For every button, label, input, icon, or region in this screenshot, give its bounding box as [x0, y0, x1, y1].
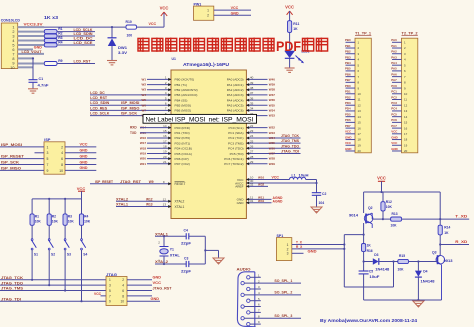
wire L1 to C2 [306, 179, 317, 181]
ground [285, 67, 295, 69]
svg-text:4: 4 [61, 151, 63, 155]
svg-text:W16: W16 [140, 136, 147, 140]
svg-text:10uF: 10uF [369, 275, 379, 279]
svg-text:VCC: VCC [160, 6, 169, 11]
pin 5 T1 [346, 64, 356, 66]
svg-text:R3: R3 [68, 215, 72, 219]
resistor R3 10K [64, 199, 66, 214]
svg-text:JTAG_RST: JTAG_RST [153, 286, 173, 290]
svg-text:W25: W25 [269, 141, 276, 145]
pin 40 PA0 [246, 78, 267, 80]
svg-text:T2_TP_2: T2_TP_2 [402, 31, 418, 35]
svg-text:9: 9 [12, 61, 14, 65]
wire LCD_SCE [57, 44, 95, 46]
svg-text:JTAG_TCK: JTAG_TCK [1, 276, 24, 280]
wire LCD pin4 [18, 40, 45, 42]
svg-text:14: 14 [163, 124, 167, 128]
pin 17 T2 [392, 133, 402, 135]
wire RXD [140, 127, 147, 129]
svg-text:W31: W31 [258, 199, 265, 203]
svg-text:DW1: DW1 [118, 46, 127, 50]
svg-text:10: 10 [404, 92, 408, 96]
svg-text:13: 13 [404, 109, 408, 113]
wire D3 to R15 [379, 261, 398, 263]
svg-text:T1_TP_1: T1_TP_1 [355, 31, 371, 35]
wire LCD pin5 [18, 44, 45, 46]
svg-text:5: 5 [12, 44, 14, 48]
pin 17 PD3 [147, 142, 171, 144]
svg-text:PD6 (ICP): PD6 (ICP) [175, 157, 189, 161]
svg-text:R1: R1 [35, 215, 39, 219]
svg-text:1: 1 [12, 26, 14, 30]
svg-text:Net Label ISP_MOSI: Net Label ISP_MOSI [146, 116, 206, 123]
svg-text:PA4 (ADC4): PA4 (ADC4) [227, 98, 244, 102]
wire LCD_RES [90, 109, 147, 111]
svg-text:LCD_RST: LCD_RST [74, 60, 92, 64]
svg-text:PC4 (TDO): PC4 (TDO) [228, 147, 243, 151]
svg-text:Y1: Y1 [170, 248, 174, 252]
svg-text:VCC: VCC [285, 5, 294, 10]
svg-text:PD5: PD5 [345, 112, 351, 116]
resistor R13 10K [391, 217, 402, 221]
pin 8 PB7 [147, 115, 171, 117]
svg-text:16: 16 [404, 126, 408, 130]
svg-text:14: 14 [358, 115, 362, 119]
wire R10 to VCC [137, 26, 165, 28]
resistor R10 [126, 25, 137, 29]
ground [413, 301, 424, 307]
svg-text:C3: C3 [184, 256, 188, 260]
svg-text:GND: GND [391, 147, 397, 151]
wire ISP_RESET [0, 158, 44, 160]
junction [163, 263, 165, 265]
junction [31, 279, 33, 281]
svg-text:9013: 9013 [444, 259, 453, 263]
wire VCC to R11 [289, 11, 291, 21]
pin 9 RESET [90, 183, 171, 185]
pin 15 PD1 [147, 132, 171, 134]
resistor R4 10K [81, 199, 83, 214]
svg-text:PC7: PC7 [391, 124, 397, 128]
svg-text:LCD_SCE: LCD_SCE [74, 41, 94, 45]
junction [64, 198, 66, 200]
zener diode DW1 3.3V [111, 27, 113, 37]
pin 32 AREF [246, 185, 268, 187]
pin 4 AUDIO [241, 293, 244, 296]
svg-text:D4: D4 [423, 270, 427, 274]
svg-text:PA0: PA0 [391, 38, 397, 42]
svg-text:R12: R12 [386, 200, 392, 204]
svg-text:PD3 (INT1): PD3 (INT1) [175, 141, 191, 145]
svg-text:PA1 (ADC1): PA1 (ADC1) [227, 83, 244, 87]
svg-text:T_X: T_X [296, 241, 303, 245]
pin 7 T1 [346, 76, 356, 78]
svg-text:W36: W36 [269, 98, 276, 102]
wire bottom link [344, 286, 393, 288]
svg-text:S1: S1 [34, 253, 38, 257]
wire R11 to LED1 [289, 33, 291, 51]
svg-text:LCD_VOUT: LCD_VOUT [22, 50, 43, 54]
svg-text:5: 5 [109, 289, 111, 293]
svg-text:W19: W19 [140, 151, 147, 155]
svg-text:Q2: Q2 [368, 206, 373, 210]
svg-text:12: 12 [163, 198, 167, 202]
pin 1 PB0 [147, 78, 171, 80]
wire XTAL1 top [155, 235, 186, 237]
svg-text:10: 10 [59, 169, 63, 173]
wire LCD_SDIN [57, 35, 95, 37]
svg-text:W20: W20 [140, 157, 147, 161]
svg-text:ATmega16(L)-16PU: ATmega16(L)-16PU [183, 62, 229, 67]
wire ISP_MISO [0, 169, 44, 171]
svg-text:S2: S2 [51, 253, 55, 257]
svg-text:PB6 (MISO): PB6 (MISO) [175, 109, 192, 113]
svg-text:R10: R10 [126, 20, 132, 24]
wire crystal right [204, 236, 206, 264]
svg-text:PD1: PD1 [345, 90, 351, 94]
svg-text:31: 31 [250, 199, 254, 203]
capacitor C3 22pF [185, 261, 187, 267]
pin 34 PA6 [246, 109, 267, 111]
pin 19 T2 [392, 144, 402, 146]
pin 9 AUDIO [247, 322, 250, 325]
resistor R12 10K [382, 192, 384, 202]
resistor R1 10K [31, 199, 33, 214]
pin 27 PC5 [246, 152, 300, 154]
svg-text:W4: W4 [142, 93, 147, 97]
svg-text:17: 17 [404, 132, 408, 136]
resistor R16 1K [363, 235, 365, 244]
svg-text:10K: 10K [68, 220, 75, 224]
wire LCD pin10 down to C1 [18, 66, 33, 68]
junction [48, 284, 50, 286]
resistor R4 [44, 43, 57, 47]
pin 8 T2 [392, 81, 402, 83]
pin 28 PC6 [246, 158, 267, 160]
switch S1 [31, 239, 33, 241]
svg-text:VCC: VCC [149, 22, 157, 26]
junction [163, 235, 165, 237]
svg-text:ISP_MOSI: ISP_MOSI [121, 101, 139, 105]
svg-text:1K: 1K [293, 27, 298, 31]
svg-text:PB4: PB4 [345, 61, 351, 65]
svg-text:PD4: PD4 [345, 107, 351, 111]
svg-text:XTAL2: XTAL2 [116, 198, 128, 202]
wire JTAG_TCK [0, 279, 106, 281]
svg-text:W10: W10 [258, 176, 265, 180]
pin 12 T2 [392, 104, 402, 106]
pin 38 PA2 [246, 89, 267, 91]
svg-text:6: 6 [12, 48, 14, 52]
capacitor C4 22pF [185, 233, 187, 239]
svg-text:2: 2 [12, 30, 14, 34]
svg-text:11: 11 [358, 98, 361, 102]
svg-text:3: 3 [12, 35, 14, 39]
svg-text:LCD_SCLK: LCD_SCLK [74, 28, 93, 32]
resistor R11 1K [288, 21, 292, 33]
svg-text:XTAL1: XTAL1 [155, 232, 168, 236]
wire LCD pin8 [18, 57, 33, 59]
svg-text:S4: S4 [83, 253, 87, 257]
wire to D3 [364, 261, 373, 263]
svg-text:35: 35 [250, 101, 254, 105]
svg-text:VCC: VCC [94, 292, 102, 296]
wire R_XD [440, 244, 469, 246]
wire right rail [439, 192, 441, 225]
wire bottom rail [364, 299, 442, 301]
svg-text:14: 14 [404, 115, 408, 119]
svg-text:PC3: PC3 [391, 101, 397, 105]
pin 22 PC0 [246, 127, 267, 129]
svg-text:37: 37 [250, 91, 254, 95]
svg-text:28: 28 [250, 155, 254, 159]
svg-text:W2: W2 [142, 83, 147, 87]
pin 15 T1 [346, 121, 356, 123]
svg-text:10K: 10K [391, 223, 398, 227]
svg-text:PB2: PB2 [345, 50, 351, 54]
wire top rail [364, 191, 441, 193]
svg-text:L1: L1 [292, 173, 296, 177]
wire JTAG pin2 [127, 279, 152, 281]
svg-text:36: 36 [250, 96, 254, 100]
svg-text:U1: U1 [172, 57, 176, 61]
svg-text:PB2 (AIN0/INT2): PB2 (AIN0/INT2) [175, 88, 198, 92]
svg-text:PB0 (XCK/T0): PB0 (XCK/T0) [175, 78, 195, 82]
wire Q2 to SP1 rail [344, 234, 363, 236]
svg-text:R1: R1 [58, 27, 62, 31]
svg-text:10: 10 [120, 300, 124, 304]
junction [382, 218, 384, 220]
pin 2 T2 [392, 47, 402, 49]
svg-text:TXD: TXD [130, 131, 137, 135]
svg-text:4: 4 [122, 284, 124, 288]
svg-text:20: 20 [404, 149, 408, 153]
pin 6 T1 [346, 70, 356, 72]
svg-text:R14: R14 [444, 226, 450, 230]
svg-text:9: 9 [109, 300, 111, 304]
svg-text:ISP_MISO: ISP_MISO [1, 166, 21, 170]
wire C5 down [363, 274, 365, 300]
svg-text:PC1: PC1 [391, 90, 397, 94]
svg-text:LCD_RST: LCD_RST [90, 96, 108, 100]
svg-text:LCD_SDIN: LCD_SDIN [90, 101, 109, 105]
junction [439, 218, 441, 220]
svg-text:17: 17 [163, 139, 167, 143]
svg-text:GND: GND [80, 149, 88, 153]
wire ISP pin6 [65, 158, 96, 160]
wire SP1 pin2 [292, 248, 345, 250]
svg-text:22pF: 22pF [181, 269, 191, 273]
svg-text:T_XD: T_XD [455, 215, 468, 219]
junction [343, 243, 345, 245]
svg-text:W5: W5 [142, 98, 147, 102]
svg-text:VCC: VCC [153, 281, 162, 285]
svg-text:AREF: AREF [235, 185, 243, 189]
resistor R1 [44, 30, 57, 34]
svg-text:LCD_SCLK: LCD_SCLK [90, 112, 109, 116]
wire JTAG_TDO [0, 284, 106, 286]
junction [315, 182, 317, 184]
pin 8 AUDIO [241, 317, 244, 320]
pin 16 T1 [346, 127, 356, 129]
svg-text:GND: GND [151, 297, 160, 301]
svg-text:W33: W33 [269, 114, 276, 118]
svg-text:VCC: VCC [77, 186, 86, 191]
svg-text:PC2: PC2 [391, 95, 397, 99]
svg-text:19: 19 [163, 150, 167, 154]
svg-text:PC2 (TCK): PC2 (TCK) [228, 136, 243, 140]
wire ISP pin3 [35, 152, 45, 154]
svg-text:W13: W13 [146, 203, 153, 207]
svg-text:R_XD: R_XD [455, 240, 468, 244]
svg-text:1: 1 [207, 9, 209, 13]
junction [204, 249, 206, 251]
svg-text:PC3 (TMS): PC3 (TMS) [228, 141, 243, 145]
pin 4 T2 [392, 58, 402, 60]
ground [311, 207, 322, 213]
svg-text:PB6: PB6 [345, 72, 351, 76]
svg-text:W23: W23 [269, 131, 276, 135]
svg-text:R_X: R_X [296, 245, 303, 249]
svg-text:15: 15 [404, 121, 408, 125]
svg-text:R9: R9 [58, 59, 62, 63]
svg-text:XTAL1: XTAL1 [175, 205, 185, 209]
svg-text:15: 15 [358, 121, 362, 125]
svg-text:26: 26 [250, 144, 254, 148]
wire TXD [140, 132, 147, 134]
svg-text:PC1 (SDA): PC1 (SDA) [228, 131, 243, 135]
wire JTAG pin4 [127, 284, 152, 286]
svg-text:100: 100 [127, 34, 133, 38]
svg-text:JTAG_TDO: JTAG_TDO [281, 144, 299, 148]
svg-text:VCC: VCC [272, 176, 280, 180]
svg-text:W18: W18 [140, 146, 147, 150]
junction [392, 260, 394, 262]
svg-text:VCC: VCC [377, 175, 386, 180]
svg-text:104: 104 [319, 201, 325, 205]
svg-text:RESET: RESET [175, 182, 186, 186]
svg-text:W28: W28 [269, 157, 276, 161]
wire to R13 [383, 218, 391, 220]
pin 31 GND [246, 202, 271, 204]
wire VCC down [381, 181, 383, 192]
svg-text:W38: W38 [269, 88, 276, 92]
junction [80, 300, 82, 302]
svg-text:19: 19 [358, 143, 362, 147]
svg-text:38: 38 [250, 86, 254, 90]
wire to ground [205, 249, 218, 251]
svg-text:3: 3 [287, 252, 289, 256]
ground [28, 88, 38, 90]
pin 2 T1 [346, 47, 356, 49]
svg-text:W1: W1 [142, 77, 147, 81]
wire JTAG pin8 [127, 295, 152, 297]
svg-text:GND: GND [391, 135, 397, 139]
svg-text:ISP_SCK: ISP_SCK [1, 161, 20, 165]
svg-text:ISP_MISO: ISP_MISO [121, 106, 140, 110]
wire T_XD [402, 218, 470, 220]
svg-text:2: 2 [207, 14, 209, 18]
pin 2 PB1 [147, 84, 171, 86]
svg-text:2: 2 [122, 278, 124, 282]
svg-text:8: 8 [12, 57, 14, 61]
svg-text:ISP_RESET: ISP_RESET [1, 155, 25, 159]
wire ISP pin8 [65, 164, 96, 166]
pin 35 PA5 [246, 104, 267, 106]
svg-text:1N4148: 1N4148 [421, 280, 435, 284]
svg-text:PB5: PB5 [345, 67, 351, 71]
pin 12 T1 [346, 104, 356, 106]
svg-text:Q3: Q3 [432, 251, 437, 255]
svg-text:18: 18 [163, 144, 167, 148]
svg-text:PD7 (OC2): PD7 (OC2) [175, 162, 190, 166]
svg-text:34: 34 [250, 107, 254, 111]
junction [380, 191, 382, 193]
pin 1 AUDIO [247, 276, 250, 279]
svg-text:XTAL: XTAL [170, 254, 180, 258]
wire R12 to junction [382, 211, 384, 219]
pin 4 T1 [346, 58, 356, 60]
svg-text:16: 16 [163, 134, 167, 138]
wire LCD_RST [57, 63, 95, 65]
svg-text:JTAG_TDI: JTAG_TDI [1, 297, 21, 301]
svg-text:16: 16 [358, 126, 362, 130]
svg-text:net: ISP_MOSI: net: ISP_MOSI [209, 116, 254, 123]
svg-text:1: 1 [47, 145, 49, 149]
wire SP1 pin1 [292, 244, 345, 246]
pin 8 T1 [346, 81, 356, 83]
pin 12 XTAL2 [116, 200, 171, 202]
svg-text:6: 6 [61, 157, 63, 161]
svg-text:R16: R16 [367, 249, 373, 253]
junction [363, 234, 365, 236]
wire ISP_MOSI [0, 146, 44, 148]
wire left rail [363, 192, 365, 213]
svg-text:5: 5 [47, 157, 49, 161]
svg-text:PB4 (SS): PB4 (SS) [175, 98, 188, 102]
svg-text:W37: W37 [269, 93, 276, 97]
svg-text:10: 10 [10, 66, 14, 70]
resistor R14 1K [438, 225, 442, 235]
svg-text:C1: C1 [39, 77, 44, 81]
pin 17 T1 [346, 133, 356, 135]
svg-text:3: 3 [109, 284, 111, 288]
svg-text:PD1 (TXD): PD1 (TXD) [175, 131, 190, 135]
svg-text:R2: R2 [52, 215, 56, 219]
svg-text:GND: GND [80, 154, 88, 158]
wire ISP_SCK [0, 164, 44, 166]
pin 18 T1 [346, 139, 356, 141]
wire Q2 emitter down [363, 223, 365, 235]
svg-text:W32: W32 [258, 183, 265, 187]
svg-text:W12: W12 [146, 198, 153, 202]
wire VCC rail [81, 191, 83, 199]
pin 7 T2 [392, 76, 402, 78]
svg-text:1K: 1K [444, 231, 449, 235]
pin 16 PD2 [147, 137, 171, 139]
svg-text:W26: W26 [269, 146, 276, 150]
svg-text:GND: GND [231, 12, 239, 16]
svg-text:JTAG_TMS: JTAG_TMS [1, 287, 24, 291]
svg-text:W34: W34 [269, 108, 276, 112]
svg-text:12: 12 [358, 103, 362, 107]
crystal Y1 XTAL [163, 236, 165, 246]
svg-text:PA6: PA6 [391, 72, 397, 76]
svg-text:PD7: PD7 [345, 124, 351, 128]
pin 14 PD0 [147, 127, 171, 129]
svg-text:19: 19 [404, 143, 408, 147]
svg-text:PB1 (T1): PB1 (T1) [175, 83, 187, 87]
